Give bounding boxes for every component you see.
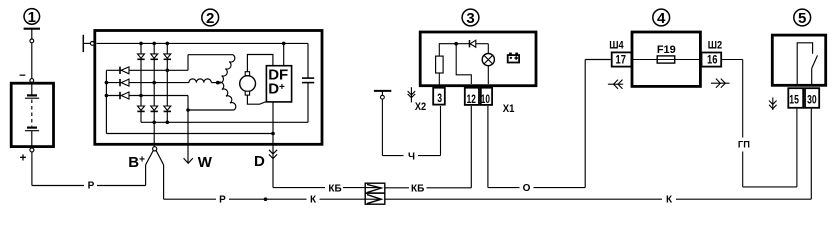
- svg-text:КБ: КБ: [328, 183, 341, 194]
- svg-text:2: 2: [206, 10, 214, 27]
- svg-text:3: 3: [466, 10, 474, 27]
- svg-text:Ч: Ч: [408, 151, 415, 162]
- svg-text:1: 1: [28, 9, 36, 26]
- svg-text:30: 30: [807, 92, 817, 106]
- svg-text:17: 17: [616, 53, 626, 67]
- svg-text:X2: X2: [415, 101, 426, 113]
- svg-text:15: 15: [789, 92, 799, 106]
- svg-text:−: −: [19, 70, 26, 82]
- svg-text:X1: X1: [503, 103, 515, 115]
- svg-text:Ш2: Ш2: [708, 39, 722, 51]
- svg-text:10: 10: [481, 92, 490, 106]
- svg-text:Р: Р: [219, 195, 226, 206]
- svg-text:4: 4: [657, 10, 666, 27]
- svg-text:+: +: [20, 152, 27, 164]
- svg-text:D: D: [254, 153, 265, 170]
- svg-text:КБ: КБ: [411, 183, 424, 194]
- svg-text:О: О: [523, 183, 531, 194]
- svg-text:К: К: [310, 195, 317, 206]
- svg-text:К: К: [666, 195, 673, 206]
- svg-text:16: 16: [707, 53, 717, 67]
- svg-text:ГП: ГП: [738, 140, 750, 150]
- svg-text:F19: F19: [657, 44, 676, 56]
- svg-text:3: 3: [437, 91, 442, 105]
- svg-text:Р: Р: [88, 181, 95, 192]
- svg-text:W: W: [198, 154, 213, 171]
- svg-text:5: 5: [798, 10, 806, 27]
- svg-text:Ш4: Ш4: [609, 39, 624, 51]
- svg-text:12: 12: [467, 92, 476, 106]
